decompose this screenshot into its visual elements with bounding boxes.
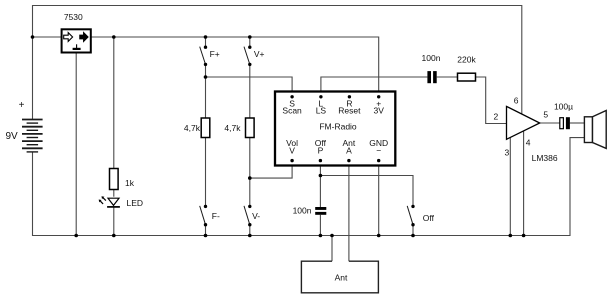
contact F- top <box>204 205 207 208</box>
svg-text:9V: 9V <box>6 131 19 142</box>
svg-text:+: + <box>19 100 25 111</box>
wire V- switch bottom to ground rail <box>249 225 251 236</box>
wire FM-Radio LS pin to 100n coupling capacitor <box>321 77 428 97</box>
node LED on rail <box>112 234 116 238</box>
IC FM-Radio module <box>275 92 395 166</box>
svg-text:220k: 220k <box>457 55 476 65</box>
svg-text:Ant: Ant <box>335 273 348 283</box>
svg-text:4,7k: 4,7k <box>224 123 241 133</box>
node scan branch <box>204 75 208 79</box>
svg-text:5: 5 <box>543 110 548 120</box>
contact F+ top <box>204 46 207 49</box>
pin S Scan <box>290 95 293 98</box>
pin R Reset <box>348 95 351 98</box>
LED <box>99 196 120 207</box>
resistor 1k <box>110 169 119 190</box>
svg-text:FM-Radio: FM-Radio <box>319 122 357 132</box>
contact Off bottom <box>411 223 414 226</box>
svg-text:V-: V- <box>252 211 260 221</box>
switch V- <box>244 206 250 225</box>
node F+ on 3V rail <box>204 35 208 39</box>
contact F+ bottom <box>204 63 207 66</box>
wire 1k resistor to LED anode <box>113 188 115 197</box>
wire F+ switch bottom to 4,7k resistor via node <box>205 64 207 118</box>
svg-text:V: V <box>289 146 295 156</box>
wire Off switch bottom to ground rail <box>412 225 414 236</box>
antenna box Ant <box>301 261 378 293</box>
svg-text:LED: LED <box>127 198 144 208</box>
svg-text:−: − <box>376 146 381 156</box>
wire 3V rail left segment battery column to 7530 input <box>33 36 62 38</box>
wire 4,7k resistor to V- switch through Vol node <box>249 138 251 207</box>
svg-text:6: 6 <box>514 96 519 106</box>
node LED branch on 3V rail <box>112 35 116 39</box>
wire FM-Radio Ant A pin to antenna box <box>348 161 350 261</box>
pin plus 3V <box>377 95 380 98</box>
svg-text:A: A <box>346 146 352 156</box>
pin Ant A <box>347 159 350 162</box>
wire ground rail battery minus to speaker return <box>33 138 585 236</box>
node V+ on 3V rail <box>248 35 252 39</box>
svg-text:100n: 100n <box>422 53 441 63</box>
node antenna ground on rail <box>330 234 334 238</box>
voltage regulator 7530 <box>62 29 91 52</box>
resistor 220k <box>458 73 476 81</box>
svg-text:Scan: Scan <box>282 106 302 116</box>
svg-text:LM386: LM386 <box>532 153 558 163</box>
svg-text:4: 4 <box>526 138 531 148</box>
svg-text:Reset: Reset <box>338 106 361 116</box>
node off/P branch <box>319 174 323 178</box>
wire ground rail to antenna box <box>331 236 333 262</box>
contact Off top <box>411 205 414 208</box>
battery 9V <box>22 120 43 152</box>
svg-text:100µ: 100µ <box>554 102 573 112</box>
wire LED branch rail to 1k resistor <box>113 37 115 168</box>
svg-text:3: 3 <box>505 148 510 158</box>
node F- on rail <box>204 234 208 238</box>
pin L LS <box>319 95 322 98</box>
wire F- switch bottom to ground rail <box>205 225 207 236</box>
op-amp LM386 <box>507 106 540 139</box>
wire LED cathode to ground rail <box>113 207 115 236</box>
svg-text:7530: 7530 <box>64 12 83 22</box>
svg-text:V+: V+ <box>254 49 265 59</box>
contact V+ top <box>248 46 251 49</box>
resistor R 4,7k (V column) <box>246 118 255 138</box>
wire FM-Radio Vol V pin to node on V column <box>250 161 292 178</box>
wire node below F+ to FM-Radio Scan pin <box>206 77 293 97</box>
wire 100n capacitor to ground rail <box>319 215 321 236</box>
svg-text:LS: LS <box>316 106 327 116</box>
wire 100n capacitor to 220k resistor <box>437 76 458 78</box>
wire 3V rail right segment 7530 output to FM-Radio 3V pin <box>91 37 379 97</box>
node vol branch <box>248 176 252 180</box>
contact V- top <box>248 205 251 208</box>
svg-text:Off: Off <box>423 213 435 223</box>
wire rail to V+ switch top contact <box>249 37 251 47</box>
capacitor 100u electrolytic <box>560 117 570 129</box>
wire 4,7k resistor to F- switch <box>205 138 207 207</box>
contact F- bottom <box>204 223 207 226</box>
node LM386 pin3 on rail <box>509 234 513 238</box>
svg-text:F+: F+ <box>210 49 220 59</box>
node 100n on rail <box>319 234 323 238</box>
node Off switch on rail <box>411 234 415 238</box>
contact V- bottom <box>248 223 251 226</box>
node 7530 ground on rail <box>74 234 78 238</box>
wire 7530 ground to rail <box>75 53 77 236</box>
node LM386 pin4 on rail <box>522 234 526 238</box>
wire LM386 pin 4 to ground rail <box>523 131 525 235</box>
svg-text:4,7k: 4,7k <box>184 123 201 133</box>
switch Off <box>407 206 413 225</box>
wire rail to F+ switch top contact <box>205 37 207 47</box>
pin Off P <box>319 159 322 162</box>
node battery plus / 9V rail <box>31 35 35 39</box>
switch F+ <box>200 47 206 65</box>
svg-text:F-: F- <box>212 211 220 221</box>
wire 220k resistor to LM386 pin 2 <box>476 77 507 124</box>
speaker LS <box>584 111 606 149</box>
pin Vol V <box>290 159 293 162</box>
wire LM386 pin 5 output to 100u capacitor <box>540 122 560 124</box>
svg-text:2: 2 <box>494 112 499 122</box>
wire V+ switch bottom to 4,7k resistor <box>249 64 251 118</box>
svg-text:3V: 3V <box>373 106 384 116</box>
svg-text:1k: 1k <box>125 178 135 188</box>
resistor R 4,7k (F column) <box>201 118 210 138</box>
wire LM386 pin 3 to ground rail <box>509 138 511 236</box>
wire FM-Radio GND pin to ground rail <box>378 161 380 236</box>
pin GND minus <box>377 159 380 162</box>
wire 100u capacitor to speaker <box>570 122 585 124</box>
wire P node to Off switch <box>320 176 413 207</box>
capacitor 100n decoupling <box>315 207 326 215</box>
node GND pin on rail <box>377 234 381 238</box>
capacitor 100n coupling <box>427 71 436 83</box>
contact V+ bottom <box>248 63 251 66</box>
wire FM-Radio Off P pin down to 100n capacitor <box>319 161 321 207</box>
switch V+ <box>244 47 250 65</box>
wire top 9V rail from battery plus to LM386 pin6 <box>33 6 522 120</box>
switch F- <box>200 206 206 225</box>
svg-text:P: P <box>318 146 324 156</box>
node V- on rail <box>248 234 252 238</box>
svg-text:100n: 100n <box>293 206 312 216</box>
